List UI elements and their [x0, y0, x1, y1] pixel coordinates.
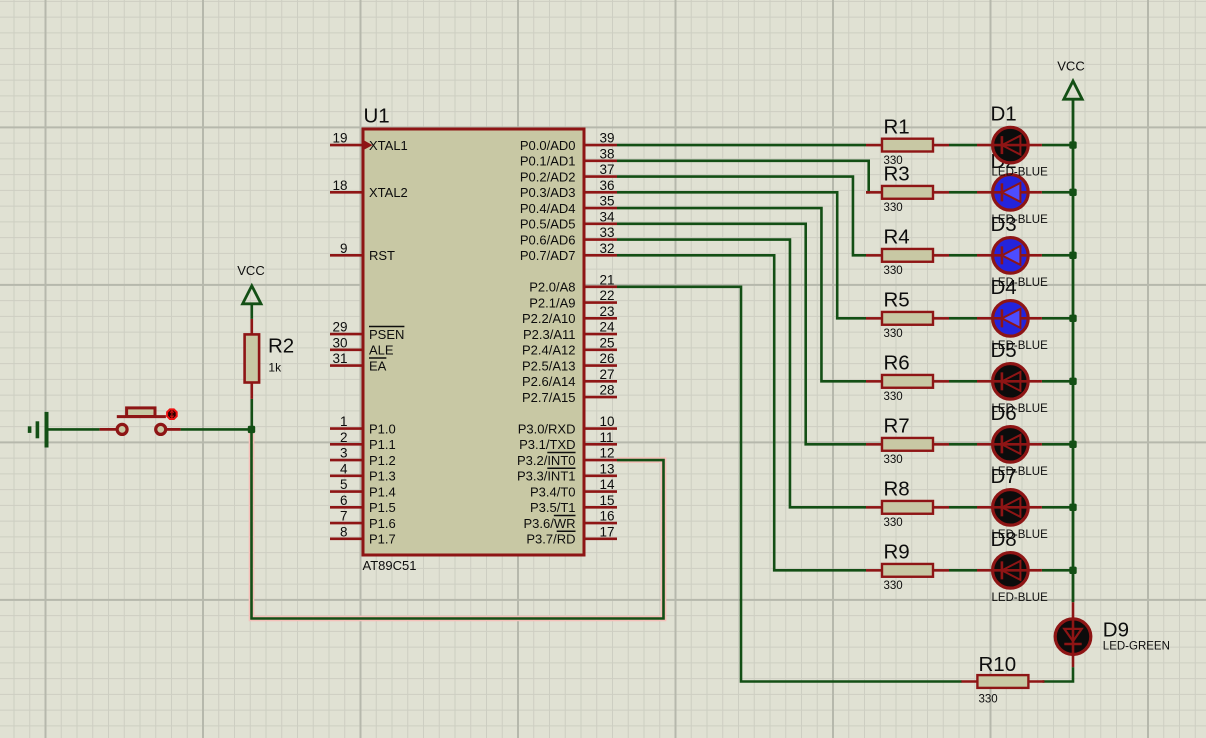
wire D3 to VCC rail [1042, 254, 1073, 257]
svg-text:P2.7/A15: P2.7/A15 [522, 390, 576, 405]
junction D8/rail [1069, 567, 1076, 574]
wire D9 cathode lead [1072, 654, 1075, 668]
pin 6 P1.5 [330, 493, 396, 515]
svg-text:4: 4 [340, 461, 348, 476]
svg-text:32: 32 [600, 241, 615, 256]
svg-text:LED-BLUE: LED-BLUE [992, 529, 1049, 541]
svg-text:R6: R6 [884, 352, 910, 375]
svg-text:23: 23 [600, 304, 615, 319]
wire R1 to D1 [949, 144, 977, 147]
resistor R10 [961, 675, 1044, 688]
svg-text:12: 12 [600, 446, 615, 461]
svg-text:R2: R2 [268, 334, 294, 357]
junction button/R2/INT0 [248, 426, 255, 433]
wire D9 to R10 [1043, 667, 1074, 681]
pin 15 P3.5/T1 [530, 493, 617, 515]
svg-text:3: 3 [340, 446, 348, 461]
svg-text:8: 8 [340, 524, 348, 539]
svg-text:P3.0/RXD: P3.0/RXD [518, 421, 576, 436]
svg-text:D9: D9 [1103, 618, 1129, 641]
svg-text:P3.4/T0: P3.4/T0 [530, 484, 576, 499]
LED D6 LED-BLUE [977, 402, 1048, 478]
svg-text:24: 24 [600, 320, 616, 335]
pin 3 P1.2 [330, 446, 396, 468]
wire button to junction [181, 428, 252, 431]
svg-text:P0.7/AD7: P0.7/AD7 [520, 248, 576, 263]
svg-text:11: 11 [600, 430, 614, 445]
wire P0.7 pin32 to R9 [617, 255, 866, 570]
svg-text:38: 38 [600, 146, 615, 161]
pin 14 P3.4/T0 [530, 477, 617, 499]
wire R5 to D4 [949, 317, 977, 320]
pin 19 XTAL1 [330, 131, 408, 153]
pin 28 P2.7/A15 [522, 383, 617, 405]
push button [100, 408, 181, 435]
svg-text:6: 6 [340, 493, 348, 508]
svg-text:35: 35 [600, 194, 615, 209]
svg-text:37: 37 [600, 162, 615, 177]
VCC rail vertical wire [1072, 100, 1075, 603]
svg-text:9: 9 [340, 241, 348, 256]
wire D6 to VCC rail [1042, 443, 1073, 446]
svg-text:18: 18 [332, 178, 347, 193]
pin 26 P2.5/A13 [522, 351, 617, 373]
svg-text:P3.1/TXD: P3.1/TXD [519, 437, 575, 452]
svg-text:LED-BLUE: LED-BLUE [992, 403, 1049, 415]
svg-text:LED-BLUE: LED-BLUE [992, 466, 1049, 478]
svg-text:P3.2/INT0: P3.2/INT0 [517, 453, 576, 468]
svg-text:17: 17 [600, 524, 615, 539]
svg-text:U1: U1 [364, 105, 390, 128]
svg-text:P0.0/AD0: P0.0/AD0 [520, 138, 576, 153]
svg-text:P0.5/AD5: P0.5/AD5 [520, 217, 576, 232]
svg-text:36: 36 [600, 178, 615, 193]
svg-text:16: 16 [600, 509, 615, 524]
pin 36 P0.3/AD3 [520, 178, 617, 200]
wire D4 to VCC rail [1042, 317, 1073, 320]
pin 5 P1.4 [330, 477, 396, 499]
wire rail to D9 anode [1072, 602, 1075, 620]
wire R7 to D6 [949, 443, 977, 446]
resistor R2 [245, 319, 260, 399]
wire P0.0 pin39 to R1 [617, 144, 866, 147]
svg-text:P3.3/INT1: P3.3/INT1 [517, 469, 576, 484]
junction D1/rail [1069, 141, 1076, 148]
pin 32 P0.7/AD7 [520, 241, 617, 263]
svg-text:1k: 1k [268, 361, 282, 375]
pin 7 P1.6 [330, 509, 396, 531]
svg-text:P1.4: P1.4 [369, 484, 396, 499]
svg-text:330: 330 [884, 454, 903, 466]
svg-text:R10: R10 [979, 653, 1017, 676]
svg-text:EA: EA [369, 358, 387, 373]
pin 13 P3.3/INT1 [517, 461, 617, 483]
svg-text:29: 29 [332, 320, 347, 335]
svg-text:13: 13 [600, 461, 615, 476]
junction D5/rail [1069, 378, 1076, 385]
LED D4 LED-BLUE [977, 276, 1048, 352]
svg-text:R7: R7 [884, 415, 910, 438]
wire D8 to VCC rail [1042, 569, 1073, 572]
svg-text:27: 27 [600, 367, 615, 382]
wire P0.3 pin36 to R5 [617, 192, 866, 318]
pin 22 P2.1/A9 [529, 288, 617, 310]
svg-text:P1.3: P1.3 [369, 469, 396, 484]
resistor R8 [866, 501, 949, 514]
resistor R3 [866, 186, 949, 199]
pin 33 P0.6/AD6 [520, 225, 617, 247]
wire P0.6 pin33 to R8 [617, 240, 866, 508]
svg-text:10: 10 [600, 414, 615, 429]
svg-text:R1: R1 [884, 115, 910, 138]
ground symbol [30, 412, 47, 448]
resistor R1 [866, 139, 949, 152]
pin 30 ALE [330, 335, 394, 357]
svg-text:330: 330 [884, 517, 903, 529]
pin 37 P0.2/AD2 [520, 162, 617, 184]
svg-text:7: 7 [340, 509, 348, 524]
wire ground to button [47, 428, 100, 431]
LED D9 LED-GREEN [1055, 618, 1170, 654]
svg-text:P0.3/AD3: P0.3/AD3 [520, 185, 576, 200]
svg-text:330: 330 [884, 580, 903, 592]
pin 16 P3.6/WR [523, 509, 617, 531]
LED D3 LED-BLUE [977, 213, 1048, 289]
pin 21 P2.0/A8 [529, 272, 617, 294]
svg-text:P1.7: P1.7 [369, 532, 396, 547]
LED D8 LED-BLUE [977, 528, 1048, 604]
pin 27 P2.6/A14 [522, 367, 617, 389]
wire VCC to R2 [251, 303, 254, 319]
resistor R9 [866, 564, 949, 577]
svg-text:P1.6: P1.6 [369, 516, 396, 531]
svg-text:P0.1/AD1: P0.1/AD1 [520, 154, 576, 169]
svg-text:34: 34 [600, 209, 616, 224]
svg-text:R4: R4 [884, 226, 910, 249]
svg-text:P1.1: P1.1 [369, 437, 396, 452]
power VCC (top right) arrow [1064, 81, 1082, 99]
wire P0.4 pin35 to R6 [617, 208, 866, 381]
LED D2 LED-BLUE [977, 150, 1048, 226]
pin 24 P2.3/A11 [523, 320, 617, 342]
svg-text:15: 15 [600, 493, 615, 508]
wire junction to P3.2/INT0 [252, 429, 664, 618]
pin 35 P0.4/AD4 [520, 194, 617, 216]
pin 11 P3.1/TXD [519, 430, 617, 452]
wire D2 to VCC rail [1042, 191, 1073, 194]
resistor R6 [866, 375, 949, 388]
pin 2 P1.1 [330, 430, 396, 452]
resistor R7 [866, 438, 949, 451]
LED D1 LED-BLUE [977, 103, 1048, 179]
svg-text:19: 19 [332, 131, 347, 146]
svg-text:28: 28 [600, 383, 615, 398]
svg-text:AT89C51: AT89C51 [363, 558, 417, 573]
pin 39 P0.0/AD0 [520, 131, 617, 153]
svg-text:P2.4/A12: P2.4/A12 [522, 343, 576, 358]
svg-text:31: 31 [332, 351, 347, 366]
svg-text:P0.4/AD4: P0.4/AD4 [520, 201, 576, 216]
svg-text:330: 330 [884, 328, 903, 340]
pin 18 XTAL2 [330, 178, 408, 200]
pin 23 P2.2/A10 [522, 304, 617, 326]
pin 29 PSEN [330, 320, 404, 342]
svg-text:LED-BLUE: LED-BLUE [992, 167, 1049, 179]
LED D7 LED-BLUE [977, 465, 1048, 541]
svg-text:330: 330 [884, 391, 903, 403]
wire P0.2 pin37 to R4 [617, 177, 866, 256]
pin 9 RST [330, 241, 395, 263]
svg-text:R3: R3 [884, 163, 910, 186]
svg-text:P2.1/A9: P2.1/A9 [529, 295, 575, 310]
wire R4 to D3 [949, 254, 977, 257]
svg-text:ALE: ALE [369, 343, 394, 358]
svg-text:LED-BLUE: LED-BLUE [992, 340, 1049, 352]
svg-text:P2.5/A13: P2.5/A13 [522, 358, 576, 373]
junction D3/rail [1069, 252, 1076, 259]
junction D2/rail [1069, 189, 1076, 196]
svg-text:39: 39 [600, 131, 615, 146]
svg-text:26: 26 [600, 351, 615, 366]
svg-text:30: 30 [332, 335, 347, 350]
wire R9 to D8 [949, 569, 977, 572]
power VCC (left) arrow [243, 286, 261, 304]
svg-text:XTAL1: XTAL1 [369, 138, 408, 153]
svg-text:LED-BLUE: LED-BLUE [992, 214, 1049, 226]
svg-text:33: 33 [600, 225, 615, 240]
svg-text:VCC: VCC [237, 263, 264, 278]
junction D6/rail [1069, 441, 1076, 448]
wire R6 to D5 [949, 380, 977, 383]
svg-text:P3.5/T1: P3.5/T1 [530, 500, 576, 515]
pin 17 P3.7/RD [526, 524, 617, 546]
junction D7/rail [1069, 504, 1076, 511]
svg-text:22: 22 [600, 288, 615, 303]
wire D1 to VCC rail [1042, 144, 1073, 147]
pin 34 P0.5/AD5 [520, 209, 617, 231]
svg-text:P0.6/AD6: P0.6/AD6 [520, 232, 576, 247]
svg-text:P2.2/A10: P2.2/A10 [522, 311, 576, 326]
wire P0.1 pin38 to R3 [617, 161, 869, 193]
svg-text:XTAL2: XTAL2 [369, 185, 408, 200]
wire D5 to VCC rail [1042, 380, 1073, 383]
svg-text:LED-GREEN: LED-GREEN [1103, 641, 1170, 653]
pin 8 P1.7 [330, 524, 396, 546]
svg-text:P1.5: P1.5 [369, 500, 396, 515]
svg-text:P1.0: P1.0 [369, 421, 396, 436]
svg-text:25: 25 [600, 335, 615, 350]
svg-text:LED-BLUE: LED-BLUE [992, 592, 1049, 604]
wire junction to P3.2/INT0 highlight halo [252, 429, 664, 618]
svg-text:P2.3/A11: P2.3/A11 [523, 327, 576, 342]
svg-text:330: 330 [979, 693, 998, 705]
button actuator marker [167, 409, 177, 419]
pin 38 P0.1/AD1 [520, 146, 617, 168]
svg-text:P0.2/AD2: P0.2/AD2 [520, 169, 576, 184]
svg-text:LED-BLUE: LED-BLUE [992, 277, 1049, 289]
wire R2 to junction [251, 399, 254, 430]
pin 25 P2.4/A12 [522, 335, 617, 357]
LED D5 LED-BLUE [977, 339, 1048, 415]
svg-text:P3.7/RD: P3.7/RD [526, 532, 575, 547]
svg-text:21: 21 [600, 272, 615, 287]
junction D4/rail [1069, 315, 1076, 322]
svg-text:R5: R5 [884, 289, 910, 312]
svg-text:R9: R9 [884, 541, 910, 564]
resistor R5 [866, 312, 949, 325]
svg-text:P1.2: P1.2 [369, 453, 396, 468]
wire D7 to VCC rail [1042, 506, 1073, 509]
pin 12 P3.2/INT0 [517, 446, 617, 468]
svg-text:D1: D1 [991, 103, 1017, 126]
pin 1 P1.0 [330, 414, 396, 436]
svg-text:330: 330 [884, 202, 903, 214]
svg-text:PSEN: PSEN [369, 327, 404, 342]
svg-text:VCC: VCC [1057, 58, 1084, 73]
pin 10 P3.0/RXD [518, 414, 617, 436]
chip U1 body AT89C51 [363, 129, 584, 555]
wire P2.0 pin21 to R10 [617, 287, 962, 682]
svg-text:P2.0/A8: P2.0/A8 [529, 280, 575, 295]
svg-text:P3.6/WR: P3.6/WR [523, 516, 575, 531]
resistor R4 [866, 249, 949, 262]
svg-text:1: 1 [340, 414, 348, 429]
wire R3 to D2 [949, 191, 977, 194]
svg-text:RST: RST [369, 248, 395, 263]
svg-text:330: 330 [884, 265, 903, 277]
pin 4 P1.3 [330, 461, 396, 483]
svg-text:5: 5 [340, 477, 348, 492]
svg-text:P2.6/A14: P2.6/A14 [522, 374, 576, 389]
pin 31 EA [330, 351, 387, 373]
wire P0.5 pin34 to R7 [617, 224, 866, 445]
svg-text:14: 14 [600, 477, 616, 492]
svg-text:R8: R8 [884, 478, 910, 501]
wire R8 to D7 [949, 506, 977, 509]
svg-text:2: 2 [340, 430, 348, 445]
